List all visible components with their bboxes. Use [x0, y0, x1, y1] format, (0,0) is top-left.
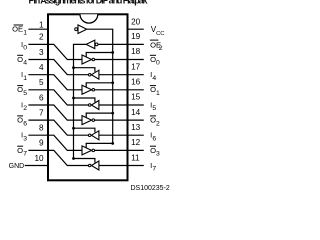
- svg-text:4: 4: [152, 75, 156, 82]
- pin 18 wire (right): [128, 59, 144, 61]
- wire: OE2 output to left enable rail: [74, 44, 87, 158]
- wire: pin 13 (I6) to gate L3: [99, 134, 128, 136]
- svg-text:7: 7: [152, 166, 156, 173]
- pin 4 wire (left): [28, 74, 48, 76]
- svg-text:OE: OE: [12, 25, 23, 34]
- pin 7 wire (left): [28, 119, 48, 121]
- inverter R3 (I2 to O2): [82, 116, 92, 125]
- svg-text:1: 1: [23, 75, 27, 82]
- svg-text:DS100235-2: DS100235-2: [130, 185, 169, 192]
- junction dot: [111, 142, 114, 145]
- svg-text:13: 13: [131, 123, 141, 132]
- svg-text:2: 2: [156, 120, 160, 127]
- svg-text:5: 5: [23, 90, 27, 97]
- svg-text:7: 7: [39, 108, 44, 117]
- wire: gate R1 output to pin 18 (O0): [95, 59, 128, 61]
- svg-text:6: 6: [39, 93, 44, 102]
- svg-text:16: 16: [131, 78, 141, 87]
- junction dot: [111, 81, 114, 84]
- svg-text:GND: GND: [9, 163, 25, 170]
- enable stub from OE2 rail to L2: [74, 98, 95, 102]
- junction dot: [72, 157, 75, 160]
- svg-text:3: 3: [156, 151, 160, 158]
- svg-text:Pin Assignments for DIP and Fl: Pin Assignments for DIP and Flatpak: [29, 0, 149, 5]
- svg-text:O: O: [17, 116, 23, 125]
- svg-text:7: 7: [23, 151, 27, 158]
- inverter OE1 (pin 1 enable): [75, 28, 78, 31]
- svg-text:O: O: [17, 146, 23, 155]
- svg-text:2: 2: [39, 33, 44, 42]
- pin 1 wire (left): [28, 28, 48, 30]
- pin 3 wire (left): [28, 59, 48, 61]
- pin 19 wire (right): [128, 43, 144, 45]
- wire: pin 19 to OE2 gate input: [98, 43, 127, 45]
- wire: gate R3 output to pin 14 (O2): [95, 119, 128, 121]
- svg-text:1: 1: [23, 29, 27, 36]
- svg-text:O: O: [17, 55, 23, 64]
- pin 20 wire (right): [128, 28, 144, 30]
- inverter L2 (I5 to O5): [91, 101, 99, 110]
- svg-text:2: 2: [23, 105, 27, 112]
- svg-text:14: 14: [131, 108, 141, 117]
- wire: gate L2 output to pin 5 (O5): [48, 90, 88, 105]
- junction dot: [72, 66, 75, 69]
- wire: pin 2 (I0) to gate R1: [48, 44, 82, 59]
- wire: pin 6 (I2) to gate R3: [48, 105, 82, 120]
- pin 16 wire (right): [128, 89, 144, 91]
- inverter L4 (I7 to O7): [91, 161, 99, 170]
- pin 17 wire (right): [128, 74, 144, 76]
- svg-text:6: 6: [23, 120, 27, 127]
- svg-text:5: 5: [152, 105, 156, 112]
- pin 10 wire (left): [25, 165, 48, 167]
- enable stub from OE2 rail to L4: [74, 159, 95, 163]
- svg-text:18: 18: [131, 47, 141, 56]
- svg-text:3: 3: [23, 135, 27, 142]
- junction dot: [72, 97, 75, 100]
- enable stub from OE1 rail to R2: [86, 83, 113, 87]
- pin 9 wire (left): [28, 149, 48, 151]
- wire: gate L1 output to pin 3 (O4): [48, 60, 88, 75]
- svg-text:10: 10: [34, 154, 44, 163]
- pin 6 wire (left): [28, 104, 48, 106]
- svg-text:4: 4: [23, 60, 27, 67]
- enable stub from OE2 rail to L3: [74, 128, 95, 132]
- svg-text:1: 1: [39, 20, 44, 29]
- svg-text:6: 6: [152, 135, 156, 142]
- enable stub from OE1 rail to R3: [86, 113, 113, 117]
- inverter R1 (I0 to O0): [82, 55, 92, 64]
- pin 13 wire (right): [128, 134, 144, 136]
- svg-text:0: 0: [156, 60, 160, 67]
- svg-text:15: 15: [131, 93, 141, 102]
- inverter R4 (I3 to O3): [82, 146, 92, 155]
- inverter L3 (I6 to O6): [91, 131, 99, 140]
- svg-text:19: 19: [131, 32, 141, 41]
- svg-text:1: 1: [156, 90, 160, 97]
- svg-text:5: 5: [39, 78, 44, 87]
- IC body outline: [48, 14, 128, 180]
- wire: gate R2 output to pin 16 (O1): [95, 89, 128, 91]
- svg-text:2: 2: [159, 45, 163, 52]
- enable stub from OE1 rail to R4: [86, 143, 113, 147]
- inverter R2 (I1 to O1): [82, 85, 92, 94]
- wire: pin 8 (I3) to gate R4: [48, 135, 82, 150]
- enable stub from OE1 rail to R1: [86, 53, 113, 57]
- pin 2 wire (left): [28, 43, 48, 45]
- svg-text:0: 0: [23, 45, 27, 52]
- pin 8 wire (left): [28, 134, 48, 136]
- enable stub from OE2 rail to L1: [74, 68, 95, 72]
- svg-text:4: 4: [39, 63, 44, 72]
- notch (index mark): [80, 14, 98, 23]
- junction dot: [72, 127, 75, 130]
- svg-text:3: 3: [39, 48, 44, 57]
- svg-text:9: 9: [39, 139, 44, 148]
- svg-text:8: 8: [39, 124, 44, 133]
- svg-text:O: O: [17, 85, 23, 94]
- wire: gate R4 output to pin 12 (O3): [95, 149, 128, 151]
- wire: gate L3 output to pin 7 (O6): [48, 120, 88, 135]
- pin 5 wire (left): [28, 89, 48, 91]
- svg-text:CC: CC: [156, 31, 164, 37]
- svg-text:12: 12: [131, 138, 141, 147]
- wire: pin 11 (I7) to gate L4: [99, 165, 128, 167]
- pin 11 wire (right): [128, 165, 144, 167]
- pin 15 wire (right): [128, 104, 144, 106]
- inverter L1 (I4 to O4): [91, 70, 99, 79]
- svg-text:17: 17: [131, 62, 141, 71]
- svg-text:11: 11: [131, 153, 140, 162]
- svg-text:20: 20: [131, 18, 141, 27]
- wire: pin 4 (I1) to gate R2: [48, 75, 82, 90]
- inverter OE2 (pin 19 enable): [95, 43, 98, 46]
- pin 12 wire (right): [128, 149, 144, 151]
- wire: OE1 output to right enable rail: [87, 29, 113, 143]
- wire: pin 17 (I4) to gate L1: [99, 74, 128, 76]
- junction dot: [111, 112, 114, 115]
- wire: gate L4 output to pin 9 (O7): [48, 150, 88, 165]
- junction dot: [111, 51, 114, 54]
- pin 14 wire (right): [128, 119, 144, 121]
- wire: pin 15 (I5) to gate L2: [99, 104, 128, 106]
